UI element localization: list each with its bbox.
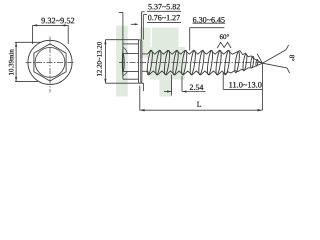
- svg-text:12.20~13.20: 12.20~13.20: [97, 41, 104, 76]
- svg-text:10.39min: 10.39min: [8, 49, 15, 76]
- svg-text:5.37~5.82: 5.37~5.82: [148, 2, 180, 11]
- svg-text:9.32~9.52: 9.32~9.52: [41, 16, 75, 25]
- svg-text:8°: 8°: [288, 55, 296, 62]
- svg-text:60°: 60°: [220, 33, 230, 41]
- svg-text:0.76~1.27: 0.76~1.27: [148, 13, 180, 22]
- svg-text:11.0~13.0: 11.0~13.0: [229, 81, 262, 90]
- svg-text:L: L: [197, 100, 202, 109]
- svg-text:2.54: 2.54: [189, 83, 203, 92]
- svg-text:6.30~6.45: 6.30~6.45: [193, 15, 225, 24]
